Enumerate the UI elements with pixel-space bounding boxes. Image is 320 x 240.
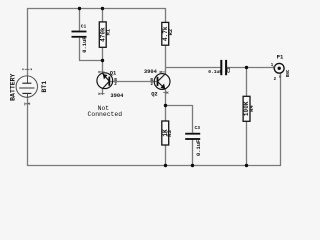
- wire R2 bottom to Q2 collector: [165, 45, 167, 73]
- transistor Q1: [97, 70, 124, 99]
- svg-text:C3: C3: [195, 125, 201, 131]
- battery BT1 positive lead: [27, 76, 29, 83]
- transistor Q2 emitter diagonal: [158, 82, 166, 90]
- transistor Q1 base bar: [108, 77, 110, 86]
- battery BT1 negative lead: [27, 93, 29, 97]
- battery BT1 pin + marker: [22, 68, 32, 70]
- capacitor C2 left plate: [220, 60, 222, 75]
- battery BT1 pin - marker: [25, 103, 30, 106]
- resistor R4: [243, 96, 255, 121]
- wire C3 bottom to ground: [192, 140, 194, 166]
- svg-text:Q1: Q1: [110, 70, 116, 76]
- wire node to C3: [166, 106, 193, 133]
- transistor Q1 emitter arrow: [103, 74, 108, 79]
- svg-text:BATTERY: BATTERY: [9, 73, 16, 100]
- transistor Q1 collector diagonal: [103, 81, 110, 88]
- node top rail / R1: [101, 7, 104, 10]
- transistor Q2: [144, 69, 170, 97]
- connector P1 center pin dot: [278, 67, 281, 70]
- resistor R2 body box: [162, 22, 169, 45]
- capacitor C1 top plate: [72, 31, 87, 33]
- capacitor C2 right plate: [225, 60, 227, 75]
- note text "Not Connected" for Q1 collector: [88, 105, 123, 118]
- capacitor C3: [185, 125, 202, 156]
- node C2 / R4 / P1: [245, 66, 248, 69]
- svg-text:BNC: BNC: [287, 69, 291, 77]
- svg-text:R1: R1: [104, 28, 111, 35]
- svg-text:0.1uF: 0.1uF: [208, 69, 222, 75]
- connector P1 outer ring: [274, 63, 284, 73]
- wire C2 node to R4: [246, 68, 248, 97]
- wire Q1 base to Q2 base: [109, 81, 157, 83]
- node C1,R1,Q1 emitter: [101, 59, 104, 62]
- resistor R4 body box: [243, 96, 250, 121]
- capacitor C1: [72, 23, 88, 52]
- resistor R1: [99, 22, 111, 47]
- svg-text:Connected: Connected: [88, 111, 123, 118]
- wire R1 bottom to node: [102, 47, 104, 60]
- transistor Q1 body circle: [97, 73, 113, 89]
- node C3 / ground rail: [191, 164, 194, 167]
- connector P1 BNC: [271, 54, 291, 83]
- wire Q1 collector not connected stub: [102, 89, 104, 96]
- wire battery negative to ground rail: [28, 73, 281, 165]
- wire R3 bottom to ground: [165, 145, 167, 166]
- capacitor C3 bottom plate: [185, 138, 200, 140]
- wire C2 to P1: [227, 67, 274, 69]
- wire R1 top drop: [102, 9, 104, 22]
- battery BT1 plate 2: [19, 87, 34, 89]
- svg-text:0.1uF: 0.1uF: [196, 140, 202, 156]
- capacitor C3 top plate: [185, 133, 200, 135]
- wire top rail: [28, 9, 166, 76]
- svg-text:R2: R2: [167, 28, 174, 35]
- svg-text:3904: 3904: [144, 69, 158, 75]
- svg-text:BT1: BT1: [41, 81, 48, 93]
- battery BT1 body circle: [16, 76, 37, 97]
- transistor Q2 base bar: [157, 77, 159, 86]
- node R3 / ground rail: [164, 164, 167, 167]
- transistor Q1 emitter diagonal: [103, 73, 110, 81]
- svg-text:R4: R4: [248, 105, 255, 112]
- node Q2 emitter / R3 / C3: [164, 104, 167, 107]
- resistor R2: [162, 22, 174, 45]
- transistor Q2 collector diagonal: [158, 74, 166, 82]
- capacitor C1 bottom plate: [72, 36, 87, 38]
- transistor Q2 body circle: [154, 74, 170, 90]
- svg-text:P1: P1: [277, 54, 284, 61]
- transistor Q2 emitter arrow: [161, 84, 166, 89]
- svg-text:Q2: Q2: [151, 91, 157, 97]
- battery BT1 plate 3: [22, 92, 31, 94]
- capacitor C2: [208, 60, 232, 75]
- wire R4 bottom to ground: [246, 121, 248, 165]
- wire node to Q1 emitter: [102, 61, 104, 74]
- resistor R3: [162, 121, 173, 145]
- wire node to R3: [165, 106, 167, 122]
- transistor Q1 emitter and collector pin markers: [98, 71, 104, 95]
- battery BT1 plate 1: [22, 82, 31, 84]
- transistor Q2 collector and emitter pin markers: [160, 71, 169, 94]
- wire C1 bottom to node: [80, 38, 103, 61]
- wire collector node to C2: [166, 67, 221, 69]
- svg-text:2: 2: [150, 82, 153, 87]
- battery BT1: [9, 69, 48, 105]
- svg-text:C2: C2: [226, 67, 232, 73]
- resistor R3 body box: [162, 121, 169, 145]
- wire C1 top drop: [79, 9, 81, 31]
- node R4 / ground rail: [245, 164, 248, 167]
- svg-text:0.1uF: 0.1uF: [82, 37, 88, 53]
- connector P1 pin markers: [273, 66, 281, 77]
- resistor R1 body box: [99, 22, 106, 47]
- svg-text:C1: C1: [81, 23, 87, 29]
- svg-text:2: 2: [114, 82, 117, 87]
- wire Q2 emitter to node: [165, 89, 167, 105]
- svg-text:R3: R3: [166, 130, 173, 137]
- svg-text:3904: 3904: [110, 93, 124, 99]
- node top rail / C1: [78, 7, 81, 10]
